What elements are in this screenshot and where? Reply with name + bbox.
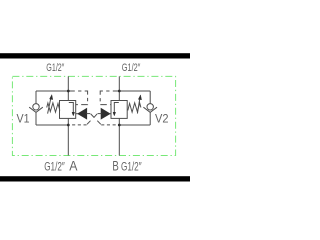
svg-text:G1/2″: G1/2″ [44, 159, 65, 173]
wire: P1 apex link to RV1 body [76, 113, 78, 115]
pilot line: dashed horizontal to port B rail [101, 124, 119, 126]
svg-text:V2: V2 [155, 112, 169, 126]
pilot line: dashed box left valve [68, 91, 87, 105]
junction node at port A top [67, 90, 70, 93]
svg-text:A: A [69, 158, 78, 174]
adjustment arrow of RV2 [137, 98, 140, 114]
pilot poppet P1 (black triangle) [78, 109, 87, 119]
pilot line: P2 back stub [98, 113, 102, 115]
junction node at port A rail [67, 124, 70, 127]
pilot line: dashed horizontal to port A rail [68, 124, 86, 126]
check valve CV1 (ball) [33, 104, 39, 110]
wire: CV1 upper vertical [35, 91, 37, 104]
svg-text:G1/2″: G1/2″ [46, 62, 64, 74]
wire: left bottom rail [36, 124, 68, 126]
pilot line: cross tail to port A side [87, 121, 91, 125]
wire: port B down line [118, 125, 120, 156]
wire: P2 apex link to RV2 body [110, 113, 111, 115]
relief valve RV1 body [60, 101, 76, 119]
wire: top horizontal to check valve CV2 [119, 90, 150, 92]
svg-text:V1: V1 [17, 111, 30, 125]
wire: right bottom rail [119, 124, 150, 126]
wire: top horizontal to check valve CV1 [36, 90, 68, 92]
check valve CV2 (ball) [147, 104, 153, 110]
pilot line: dashed box right valve [100, 91, 119, 105]
wire: top port A line [67, 76, 69, 100]
wire: port A down line [67, 125, 69, 156]
junction node at port B rail [118, 124, 121, 127]
wire: relief valve RV1 outlet [67, 118, 69, 125]
spring of RV2 [128, 103, 141, 112]
check valve CV1 seat [29, 107, 43, 112]
junction node at port B top [118, 90, 121, 93]
bottom black separator bar [0, 176, 190, 181]
wire: CV2 upper vertical [149, 91, 151, 104]
adjustment arrow of RV1 [48, 98, 51, 114]
wire: top port B line [118, 76, 120, 100]
svg-text:B: B [112, 157, 118, 173]
relief valve RV1 flow arrow [69, 103, 74, 113]
relief valve RV2 body [111, 101, 127, 119]
svg-text:G1/2″: G1/2″ [122, 62, 141, 74]
check valve CV2 seat [143, 107, 157, 112]
pilot line: P1 back stub [87, 113, 91, 115]
pilot line: crossing dash V center [91, 114, 97, 118]
top black separator bar [0, 53, 190, 58]
svg-text:G1/2″: G1/2″ [121, 159, 142, 173]
wire: relief valve RV2 outlet [118, 118, 120, 125]
wire: CV1 lower vertical to rail [35, 112, 37, 125]
pilot line: cross tail to port B side [97, 121, 101, 125]
wire: CV2 lower vertical to rail [149, 112, 151, 125]
pilot poppet P2 (black triangle) [101, 109, 110, 119]
spring of RV1 [47, 103, 60, 112]
valve body boundary (green dash-dot enclosure) [12, 76, 175, 155]
relief valve RV2 flow arrow [114, 103, 119, 113]
